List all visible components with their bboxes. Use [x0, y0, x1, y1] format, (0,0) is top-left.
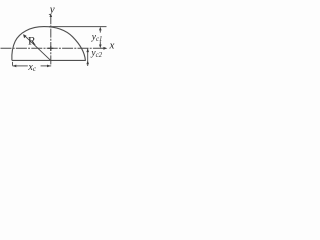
centroid cross [48, 47, 54, 49]
top extension line (crest level) [49, 26, 107, 28]
semicircle arc outline [12, 27, 86, 61]
svg-text:y: y [49, 3, 55, 15]
svg-text:xc: xc [27, 62, 36, 73]
chord flat bottom [12, 59, 86, 61]
dimension x_c line left segment with arrow [13, 65, 17, 68]
svg-text:x: x [109, 39, 115, 51]
y-axis arrowhead [50, 13, 53, 17]
y_c2 arrowhead at axis [86, 48, 89, 52]
radius line R [24, 35, 51, 61]
dimension y_c2 line [87, 48, 89, 66]
x-axis centroidal dash-dot line [1, 47, 106, 49]
dimension x_c line right segment with arrow [41, 65, 51, 67]
y_c2 arrowhead at chord [86, 61, 89, 65]
svg-text:yc2: yc2 [90, 48, 102, 58]
extension line below chord left [12, 62, 14, 66]
y-axis centerline dash-dot [50, 15, 52, 66]
x-axis arrowhead [103, 47, 107, 50]
radius arrowhead [23, 34, 26, 38]
dimension y_c1 lower arrow [99, 41, 101, 45]
svg-text:R: R [28, 35, 36, 47]
dimension y_c1 upper arrow [99, 27, 102, 31]
